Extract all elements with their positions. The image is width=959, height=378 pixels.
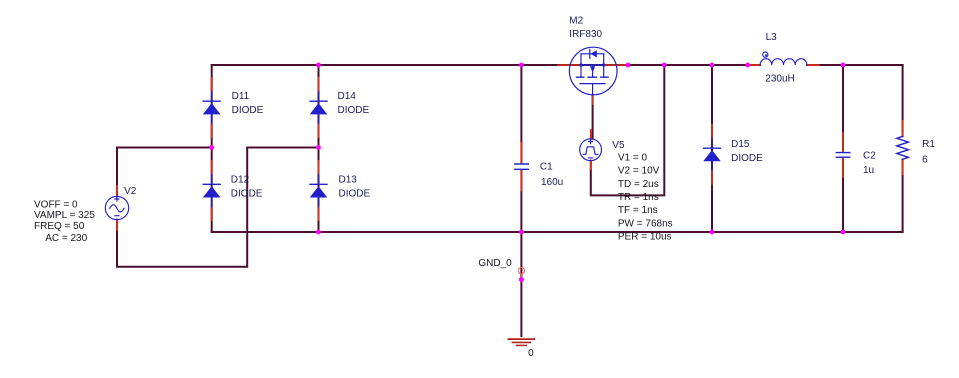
svg-text:L3: L3 (766, 32, 778, 43)
V2 pins (116, 186, 118, 230)
node L3 left (745, 63, 750, 68)
svg-text:C1: C1 (540, 162, 553, 173)
svg-text:DIODE: DIODE (231, 189, 263, 200)
wire right bridge column (318, 65, 320, 232)
svg-text:VAMPL = 325: VAMPL = 325 (34, 210, 95, 221)
node D13 bottom (316, 230, 321, 235)
node V5 return top (662, 63, 667, 68)
svg-text:DIODE: DIODE (339, 189, 371, 200)
wire ground stub (520, 232, 522, 336)
svg-text:D15: D15 (731, 139, 750, 150)
svg-text:IRF830: IRF830 (569, 29, 602, 40)
gnd port circle (518, 267, 524, 273)
diode D13 (310, 174, 328, 207)
pulse source V5 (580, 139, 602, 161)
resistor R1 (897, 136, 909, 159)
D12 pins (211, 161, 213, 220)
R1 pins (902, 121, 904, 174)
C2 pins (842, 133, 844, 177)
mosfet M2 (569, 47, 617, 95)
svg-text:D11: D11 (232, 91, 250, 102)
diode D11 (203, 91, 221, 124)
svg-text:TD = 2us: TD = 2us (618, 179, 659, 190)
svg-text:C2: C2 (863, 151, 876, 162)
diode D15 (703, 138, 721, 171)
node gnd port (519, 277, 524, 282)
wire top bus (212, 64, 903, 66)
wire V2 bottom loop (117, 148, 319, 267)
svg-text:V2: V2 (124, 186, 137, 197)
node C2 bottom (841, 230, 846, 235)
svg-text:DIODE: DIODE (232, 105, 264, 116)
wire V5 return loop (591, 65, 665, 195)
svg-text:AC = 230: AC = 230 (45, 233, 87, 244)
svg-text:V5: V5 (612, 140, 625, 151)
C1 pins (520, 143, 522, 191)
diode D14 (310, 91, 328, 124)
capacitor C2 (836, 153, 850, 158)
node AC right (316, 145, 321, 150)
wire bottom bus (212, 231, 903, 233)
node D15 top (710, 63, 715, 68)
D13 pins (318, 161, 320, 220)
svg-text:FREQ = 50: FREQ = 50 (34, 221, 85, 232)
label V2 params (34, 199, 95, 244)
svg-text:6: 6 (922, 154, 928, 165)
label V5 params (618, 152, 673, 242)
svg-text:1u: 1u (863, 165, 874, 176)
svg-text:PW = 768ns: PW = 768ns (618, 219, 673, 230)
M2 pins (558, 65, 628, 104)
node AC left (209, 145, 214, 150)
wire R1 column (902, 65, 904, 232)
D15 pins (711, 125, 713, 184)
wire C1 column (520, 65, 522, 232)
inductor L3 (760, 52, 807, 65)
svg-text:TR = 1ns: TR = 1ns (618, 192, 659, 203)
svg-text:VOFF = 0: VOFF = 0 (34, 199, 78, 210)
svg-text:160u: 160u (541, 177, 563, 188)
svg-text:PER = 10us: PER = 10us (618, 232, 672, 243)
node M2 source (626, 63, 631, 68)
node D15 bottom (710, 230, 715, 235)
node C1 top (519, 63, 524, 68)
D11 pins (211, 78, 213, 137)
svg-text:GND_0: GND_0 (478, 258, 512, 269)
D14 pins (318, 78, 320, 137)
svg-text:230uH: 230uH (765, 73, 794, 84)
wire D15 column (711, 65, 713, 232)
svg-text:D13: D13 (339, 175, 358, 186)
svg-text:DIODE: DIODE (731, 153, 763, 164)
svg-text:DIODE: DIODE (338, 105, 370, 116)
wire M2 gate to V5 (592, 95, 594, 139)
wire V2 top (117, 148, 212, 197)
voltage source V2 (105, 196, 128, 219)
diode D12 (203, 174, 221, 207)
ground symbol 0 (508, 339, 534, 345)
V5 pins (590, 130, 592, 169)
wire C2 column (842, 65, 844, 232)
node C2 top (841, 63, 846, 68)
node D14 top (316, 63, 321, 68)
svg-text:V2 = 10V: V2 = 10V (618, 166, 660, 177)
svg-text:D14: D14 (338, 91, 357, 102)
svg-text:D12: D12 (231, 175, 250, 186)
node GND tap (519, 230, 524, 235)
L3 pins (749, 64, 819, 66)
capacitor C1 (515, 164, 529, 169)
svg-text:R1: R1 (922, 139, 935, 150)
svg-text:V1 = 0: V1 = 0 (618, 152, 648, 163)
svg-text:0: 0 (528, 348, 534, 359)
wire left bridge column (211, 65, 213, 232)
svg-text:TF = 1ns: TF = 1ns (618, 205, 658, 216)
pin stubs red (117, 65, 903, 230)
svg-text:M2: M2 (569, 15, 583, 26)
